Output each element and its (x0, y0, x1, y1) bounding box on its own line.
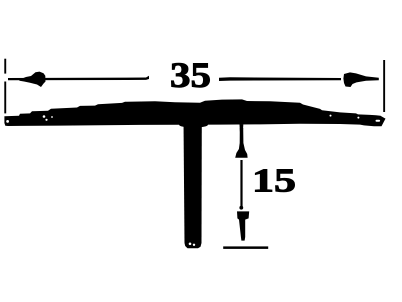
svg-text:15: 15 (252, 163, 296, 200)
stem bottom scan notch 2 (193, 244, 195, 246)
dim-35 left arrowhead (19, 72, 46, 87)
dim-15 dimension line middle segment (240, 160, 242, 207)
dim-15 down arrowhead (237, 211, 249, 240)
flange right scan dot 1 (330, 115, 332, 117)
flange scan speck 4 (51, 116, 53, 118)
flange right-end scan hole (376, 120, 381, 122)
dim-15 dimension line top stub (240, 125, 244, 137)
dim-35 right arrowhead (343, 72, 378, 87)
dim-35 left extension line lower segment (4, 82, 6, 114)
dim-35 dimension line right segment (219, 77, 341, 81)
dim-15 bottom extension tick (223, 246, 268, 249)
dim-35 right extension line (383, 60, 385, 112)
svg-text:35: 35 (170, 55, 211, 95)
dim-15 up arrowhead (235, 128, 247, 158)
dim-15 line dot (239, 206, 243, 210)
T-profile stem (vertical web) (184, 120, 202, 248)
dim-35 left extension line upper segment (4, 59, 6, 74)
T-profile flange (horizontal bar) (4, 99, 385, 126)
dim-35 dimension line left segment (8, 76, 149, 81)
flange scan speck 2 (43, 115, 46, 118)
flange right scan dot 2 (357, 117, 359, 119)
flange scan speck 3 (45, 119, 47, 121)
stem bottom scan notch 1 (189, 243, 192, 246)
flange scan speck 1 (6, 120, 9, 123)
flange-stem junction fillet (179, 122, 208, 128)
